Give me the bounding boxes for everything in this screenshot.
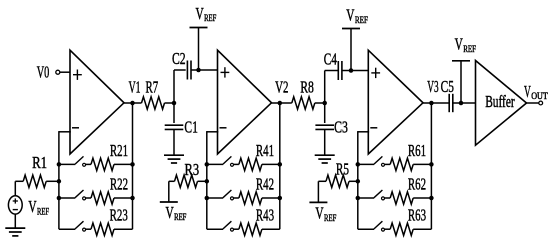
resistor R41	[233, 141, 280, 171]
svg-text:R62: R62	[408, 175, 426, 194]
op-amp U2	[218, 50, 272, 154]
wire riser to C2	[173, 70, 175, 103]
junction	[130, 196, 135, 201]
svg-text:R23: R23	[110, 206, 128, 225]
switch (R62 branch)	[358, 190, 385, 200]
junction	[278, 196, 283, 201]
junction	[196, 68, 201, 73]
junction	[356, 162, 361, 167]
wire V0 to op-amp A1 + input	[60, 71, 70, 73]
node after R8 (stage-3 input)	[322, 101, 327, 106]
junction	[349, 68, 354, 73]
svg-text:R42: R42	[256, 175, 274, 194]
capacitor C3	[315, 103, 348, 136]
junction	[459, 101, 464, 106]
svg-text:R1: R1	[32, 153, 47, 172]
svg-text:R3: R3	[185, 160, 200, 179]
svg-text:R61: R61	[408, 141, 426, 160]
svg-text:V: V	[196, 4, 205, 23]
wire VREF source to ground	[14, 214, 16, 228]
buffer amplifier	[476, 61, 527, 146]
junction	[205, 196, 210, 201]
wire C3 to ground	[324, 129, 326, 155]
svg-text:V1: V1	[129, 77, 141, 96]
svg-text:V: V	[524, 82, 531, 101]
capacitor C2	[172, 49, 191, 80]
svg-text:V: V	[166, 203, 175, 222]
svg-text:C4: C4	[324, 50, 338, 69]
power VREF (stage 2 bottom)	[160, 181, 187, 222]
wire C5 to buffer input	[453, 102, 476, 104]
wire right rail stage 2 (V2 down)	[279, 103, 281, 229]
wire U2 - input feedback step	[207, 131, 219, 229]
capacitor C4	[324, 50, 342, 80]
svg-text:V0: V0	[37, 62, 50, 81]
junction	[429, 162, 434, 167]
resistor R3	[169, 160, 207, 188]
svg-text:OUT: OUT	[531, 91, 548, 101]
resistor R8	[280, 77, 325, 109]
wire C2 to U2 + input	[191, 69, 218, 71]
resistor R22	[85, 175, 132, 205]
svg-text:C2: C2	[172, 49, 186, 68]
resistor R1	[15, 153, 59, 187]
svg-text:R8: R8	[300, 77, 314, 96]
capacitor C1	[165, 103, 198, 136]
svg-text:REF: REF	[174, 212, 186, 222]
svg-text:V: V	[346, 5, 355, 24]
wire U3 output	[423, 102, 431, 104]
junction	[205, 179, 210, 184]
switch (R23 branch)	[59, 221, 86, 231]
node V2	[275, 77, 288, 105]
wire C4 to U3 + input	[342, 70, 368, 72]
wire riser to C4	[324, 71, 326, 104]
ground (C1)	[164, 155, 184, 163]
node VOUT output terminal	[524, 82, 548, 105]
wire U2 output	[272, 102, 280, 104]
wire C1 to ground	[173, 129, 175, 155]
resistor R43	[233, 206, 280, 236]
svg-text:REF: REF	[204, 13, 216, 23]
switch (R43 branch)	[207, 221, 234, 231]
wire right rail stage 3 (V3 down)	[430, 103, 432, 229]
switch (R63 branch)	[358, 221, 385, 231]
svg-text:Buffer: Buffer	[485, 92, 515, 111]
switch (R61 branch)	[358, 156, 385, 166]
wire V3 to C5	[431, 102, 449, 104]
svg-text:R21: R21	[110, 141, 128, 160]
svg-text:C5: C5	[441, 77, 454, 96]
op-amp U1	[70, 50, 124, 154]
resistor R63	[384, 206, 431, 236]
capacitor C5	[441, 77, 454, 112]
junction	[130, 162, 135, 167]
junction	[356, 196, 361, 201]
switch (R21 branch)	[59, 156, 86, 166]
svg-text:R43: R43	[256, 206, 274, 225]
svg-text:C3: C3	[334, 117, 348, 136]
switch (R42 branch)	[207, 190, 234, 200]
resistor R42	[233, 175, 280, 205]
node V1	[129, 77, 141, 105]
source VREF (stage 1)	[8, 196, 49, 217]
wire U1 output	[124, 102, 133, 104]
power VREF (stage 3 bottom)	[309, 181, 336, 223]
junction	[57, 162, 62, 167]
svg-text:REF: REF	[37, 206, 49, 216]
svg-text:REF: REF	[324, 213, 336, 223]
junction	[57, 196, 62, 201]
switch (R22 branch)	[59, 190, 86, 200]
wire right rail stage 1 (V1 down)	[132, 103, 134, 229]
resistor R7	[133, 77, 175, 109]
resistor R61	[384, 141, 431, 171]
junction	[429, 196, 434, 201]
svg-text:R63: R63	[408, 206, 426, 225]
svg-text:R7: R7	[146, 77, 159, 96]
wire buffer output	[527, 102, 539, 104]
svg-text:R22: R22	[110, 175, 128, 194]
svg-text:V3: V3	[427, 77, 438, 96]
resistor R62	[384, 175, 431, 205]
switch (R41 branch)	[207, 156, 234, 166]
resistor R21	[85, 141, 132, 171]
junction	[356, 179, 361, 184]
wire U3 - input feedback step	[358, 131, 369, 229]
power VREF (stage 3 top bias)	[342, 5, 368, 70]
svg-text:C1: C1	[184, 117, 198, 136]
junction	[205, 162, 210, 167]
resistor R23	[85, 206, 132, 236]
resistor R5	[318, 160, 357, 188]
svg-text:V: V	[455, 34, 464, 53]
svg-text:V: V	[28, 197, 37, 216]
svg-text:V2: V2	[275, 77, 288, 96]
junction	[278, 162, 283, 167]
junction	[57, 179, 62, 184]
svg-text:REF: REF	[463, 44, 476, 54]
node after R7 (stage-2 input)	[172, 101, 177, 106]
node V0 input terminal	[37, 62, 60, 81]
ground (stage 1 source)	[5, 228, 25, 236]
svg-text:R41: R41	[256, 141, 274, 160]
node V3	[427, 77, 438, 105]
svg-text:R5: R5	[336, 160, 349, 179]
ground (C3)	[315, 155, 335, 163]
power VREF (buffer bias)	[452, 34, 476, 103]
wire R1 to VREF source	[14, 181, 16, 196]
svg-text:REF: REF	[355, 15, 368, 25]
op-amp U3	[368, 50, 423, 154]
svg-text:V: V	[315, 204, 324, 223]
power VREF (stage 2 top bias)	[190, 4, 217, 70]
wire U1 - input feedback step	[59, 131, 71, 229]
